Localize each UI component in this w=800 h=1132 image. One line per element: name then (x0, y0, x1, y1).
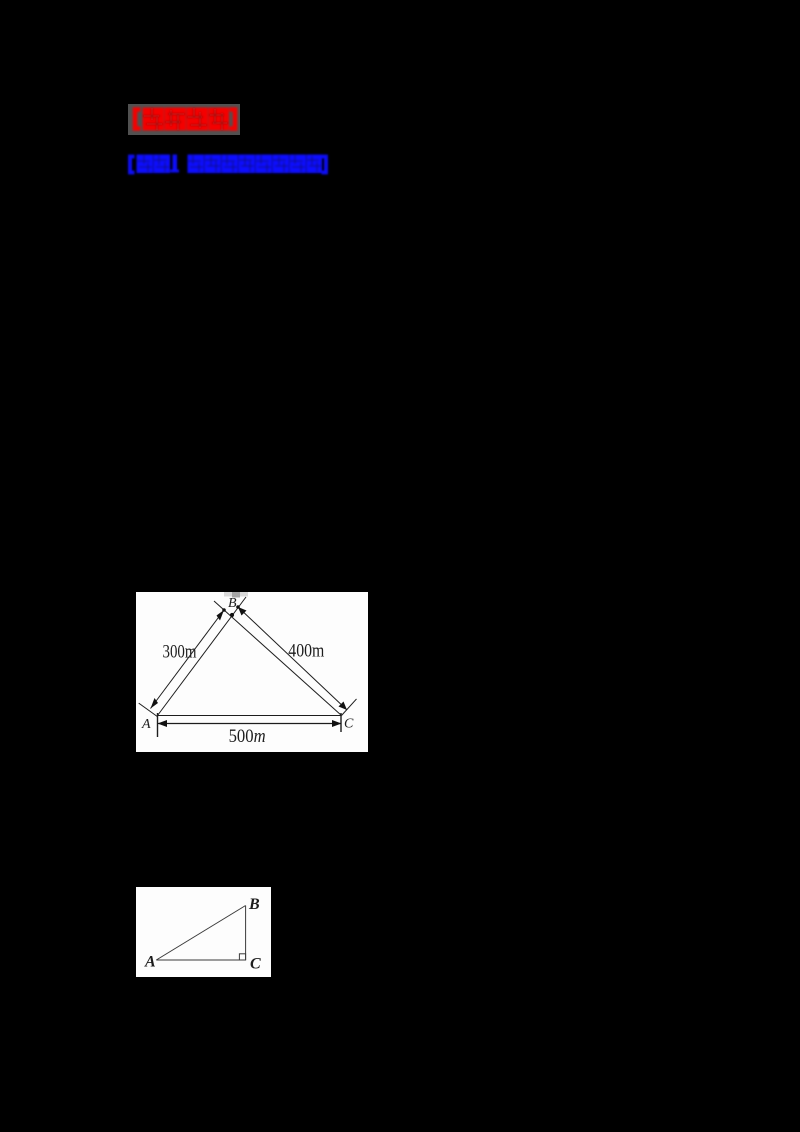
side AC (156, 959, 245, 961)
arrowhead 400m near B (238, 607, 247, 616)
right-angle mark at C (239, 954, 245, 960)
char blob 2 (xing) (165, 108, 187, 131)
heading 2: blue subtitle on black (125, 151, 331, 178)
char blob 1 (dian) (143, 108, 165, 131)
side CB (extended past apex) (214, 601, 342, 716)
white figure background (136, 592, 368, 752)
junction dot right of B (236, 605, 240, 609)
white figure background (136, 887, 271, 977)
svg-text:A: A (144, 954, 156, 971)
side BC (245, 906, 247, 961)
vertical extension at A (157, 713, 159, 737)
svg-text:400m: 400m (288, 641, 324, 662)
tick through C (342, 699, 357, 716)
dimension line 400m (238, 607, 347, 710)
arrowhead 300m near B (217, 610, 225, 621)
svg-text:C: C (250, 956, 261, 973)
figure 2: right triangle ABC (136, 887, 271, 977)
junction dot at apex (230, 613, 234, 617)
arrowhead 500m left (158, 720, 168, 727)
char kao (137, 155, 154, 174)
arrowhead 400m near C (339, 702, 348, 711)
side AB (156, 906, 245, 961)
svg-text:300m: 300m (163, 642, 197, 663)
heading block: red title on gray highlight (126, 102, 244, 138)
char de (239, 155, 256, 174)
svg-text:B: B (228, 596, 237, 611)
char blob 4 (xi) (209, 108, 230, 131)
arrowhead 500m right (332, 720, 342, 727)
right bracket glyph (322, 157, 327, 173)
side AB (extended past apex) (158, 597, 247, 716)
dimension line 500m (158, 723, 342, 725)
svg-text:500m: 500m (229, 726, 266, 747)
char blob 3 (fen) (187, 108, 209, 131)
svg-text:A: A (141, 717, 151, 732)
svg-text:B: B (248, 896, 260, 913)
char guan (290, 155, 307, 174)
dimension line 300m (151, 610, 225, 709)
char yu (205, 155, 222, 174)
char xi (307, 155, 323, 174)
arrowhead 300m near A (151, 698, 159, 709)
svg-text:C: C (344, 717, 354, 732)
figure 1: surveying triangle with dimension arrows (136, 592, 368, 752)
char wei (256, 155, 273, 174)
char yuan (222, 155, 239, 174)
char dian (154, 155, 171, 174)
gray highlight box (128, 104, 240, 135)
gray smudge above B (224, 592, 248, 597)
right bracket glyph (230, 110, 236, 129)
vertical extension at C (340, 713, 342, 732)
tick through A (139, 703, 158, 716)
char dian2 (188, 155, 205, 174)
junction dot left of B (222, 608, 226, 612)
left bracket glyph (130, 157, 135, 173)
left bracket glyph (135, 110, 141, 129)
side AC (158, 715, 342, 717)
char zhi (273, 155, 290, 174)
digit 1 (173, 155, 178, 172)
